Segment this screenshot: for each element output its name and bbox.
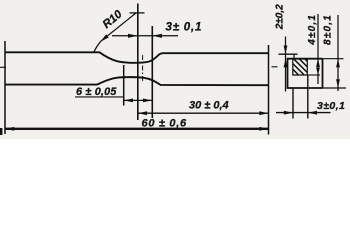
arrow 3-dim left [128, 34, 138, 38]
svg-text:R10: R10 [101, 8, 125, 31]
svg-text:6 ± 0,05: 6 ± 0,05 [76, 86, 117, 98]
svg-text:4±0,1: 4±0,1 [307, 14, 318, 46]
svg-text:2±0,2: 2±0,2 [275, 4, 286, 30]
section top edge extension [323, 58, 344, 60]
extension line left of 3-dim [137, 4, 139, 121]
dimension line 4±0.1 [317, 14, 319, 84]
hatch right edge extension below [307, 75, 309, 119]
hatch left edge extension up to tick [293, 54, 295, 59]
arrow 8-dim down [336, 79, 340, 88]
hatching [293, 59, 308, 75]
arrow section-3 left [284, 111, 293, 115]
arrow 2-dim up [284, 59, 288, 68]
svg-text:3±0,1: 3±0,1 [317, 100, 345, 112]
dimension line 8±0.1 [337, 15, 339, 91]
dimension line 2±0.2 [285, 37, 287, 92]
extension line right of 3-dim [151, 26, 153, 118]
R10 fillet arc overshoot [94, 42, 101, 53]
svg-text:3± 0,1: 3± 0,1 [166, 22, 203, 34]
hatched gauge area border [293, 59, 308, 75]
hatch left edge extension below [292, 88, 294, 119]
section upper tick (2-dim upper extension) [279, 53, 298, 55]
section square outline [287, 59, 323, 88]
hatch bottom extension [307, 74, 320, 76]
svg-text:8±0,1: 8±0,1 [322, 14, 333, 45]
arrow 4-dim down [316, 68, 320, 75]
arrow section-3 right [308, 111, 317, 115]
arrow 30-dim left [138, 111, 147, 115]
dimension line 3±0.1 [112, 35, 178, 37]
arrowhead R10 leader [100, 34, 109, 41]
tick at top of extension [130, 12, 145, 14]
arrow 6-dim left [124, 99, 133, 103]
arrow 3-dim right [153, 34, 163, 38]
specimen bottom edge with bump [5, 77, 268, 85]
specimen left extension line [4, 41, 6, 134]
centerline stub right [272, 66, 278, 68]
arrow 30-dim right [259, 111, 268, 115]
dimension line 6±0.05 [124, 99, 153, 101]
arrow 60-dim left [5, 127, 14, 131]
arrow 4-dim up [316, 59, 320, 67]
specimen right extension line [268, 45, 270, 135]
svg-text:30 ± 0,4: 30 ± 0,4 [189, 100, 229, 112]
extension line left of 6-dim [123, 65, 125, 106]
corner smudge bottom-left [0, 128, 2, 135]
leader line R10 [101, 13, 137, 42]
svg-text:60 ± 0,6: 60 ± 0,6 [142, 117, 187, 129]
underline 6±0,05 [75, 96, 123, 98]
neck vertical centerline [142, 55, 144, 83]
arrow 2-dim down [284, 46, 288, 55]
arrow 8-dim up [336, 59, 340, 68]
arrow 60-dim right [259, 127, 268, 131]
arrow 6-dim right [143, 99, 152, 103]
dimension line 30±0.4 [138, 112, 269, 114]
dimension line 60±0.6 [5, 128, 269, 130]
centerline stub left [0, 66, 6, 68]
section dimension line 3±0.1 [276, 112, 331, 114]
specimen top edge with R10 neck dip [5, 52, 268, 63]
section bottom edge extension [323, 87, 347, 89]
